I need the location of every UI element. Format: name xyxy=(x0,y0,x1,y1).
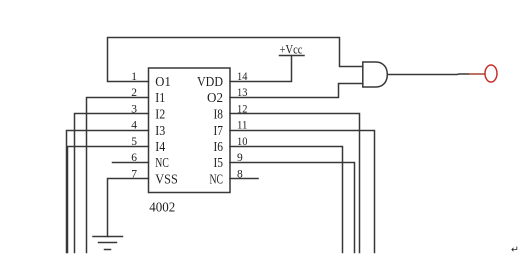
svg-text:I6: I6 xyxy=(214,140,224,155)
wire: pin3 I2 left bus xyxy=(75,114,149,253)
wire: pin9 I5 right bus xyxy=(230,163,355,253)
svg-text:5: 5 xyxy=(131,136,137,148)
wire: pin7 VSS to ground xyxy=(108,179,149,237)
svg-text:7: 7 xyxy=(131,168,137,180)
pin numbers right xyxy=(237,71,248,180)
AND gate U2 xyxy=(363,62,388,87)
svg-text:O2: O2 xyxy=(207,91,223,106)
svg-text:2: 2 xyxy=(131,87,137,99)
svg-text:8: 8 xyxy=(237,168,243,180)
wire: pin14 VDD to +Vcc xyxy=(230,56,292,82)
wire: pin5 I4 left bus xyxy=(68,147,149,253)
svg-text:VSS: VSS xyxy=(155,173,178,188)
wire: red terminal lead xyxy=(469,73,485,75)
svg-text:6: 6 xyxy=(131,152,137,164)
svg-text:12: 12 xyxy=(237,104,248,116)
svg-text:14: 14 xyxy=(237,71,248,83)
wire: pin13 O2 to AND gate lower input xyxy=(230,84,363,98)
svg-text:4002: 4002 xyxy=(149,201,175,216)
wire: pin8 NC stub xyxy=(230,178,258,180)
svg-text:I1: I1 xyxy=(155,91,165,106)
pin numbers left xyxy=(131,71,137,180)
svg-text:11: 11 xyxy=(237,120,248,132)
svg-text:+Vcc: +Vcc xyxy=(280,42,303,57)
svg-text:10: 10 xyxy=(237,136,248,148)
chip U1 4002 body xyxy=(149,68,231,193)
svg-text:VDD: VDD xyxy=(197,75,223,90)
power symbol +Vcc bar xyxy=(280,55,305,57)
wire: pin10 I6 right bus xyxy=(230,147,343,253)
svg-text:NC: NC xyxy=(210,173,224,188)
svg-text:O1: O1 xyxy=(155,75,171,90)
svg-text:I2: I2 xyxy=(155,108,165,123)
wire: pin4 I3 left bus xyxy=(67,131,149,253)
svg-text:1: 1 xyxy=(131,71,137,83)
svg-text:9: 9 xyxy=(237,152,243,164)
svg-text:I4: I4 xyxy=(155,140,165,155)
svg-text:I3: I3 xyxy=(155,124,165,139)
svg-text:↵: ↵ xyxy=(511,246,519,256)
svg-text:NC: NC xyxy=(155,156,169,171)
terminal: red output pad xyxy=(485,65,497,82)
svg-text:I8: I8 xyxy=(214,108,224,123)
wire: pin11 I7 right bus xyxy=(230,131,375,253)
wire: pin2 I1 left bus xyxy=(87,98,149,253)
svg-text:4: 4 xyxy=(131,120,137,132)
pin names left column xyxy=(155,75,178,188)
wire: gate output xyxy=(387,73,468,76)
svg-text:3: 3 xyxy=(131,104,137,116)
svg-text:13: 13 xyxy=(237,87,248,99)
svg-text:I7: I7 xyxy=(214,124,224,139)
wire: pin1 to +V top rail to AND gate upper input xyxy=(108,38,363,82)
wire: pin6 NC stub xyxy=(113,162,149,164)
wire: pin12 I8 right bus xyxy=(230,114,360,253)
ground symbol xyxy=(93,236,123,238)
pin names right column xyxy=(197,75,223,188)
svg-text:I5: I5 xyxy=(214,156,224,171)
